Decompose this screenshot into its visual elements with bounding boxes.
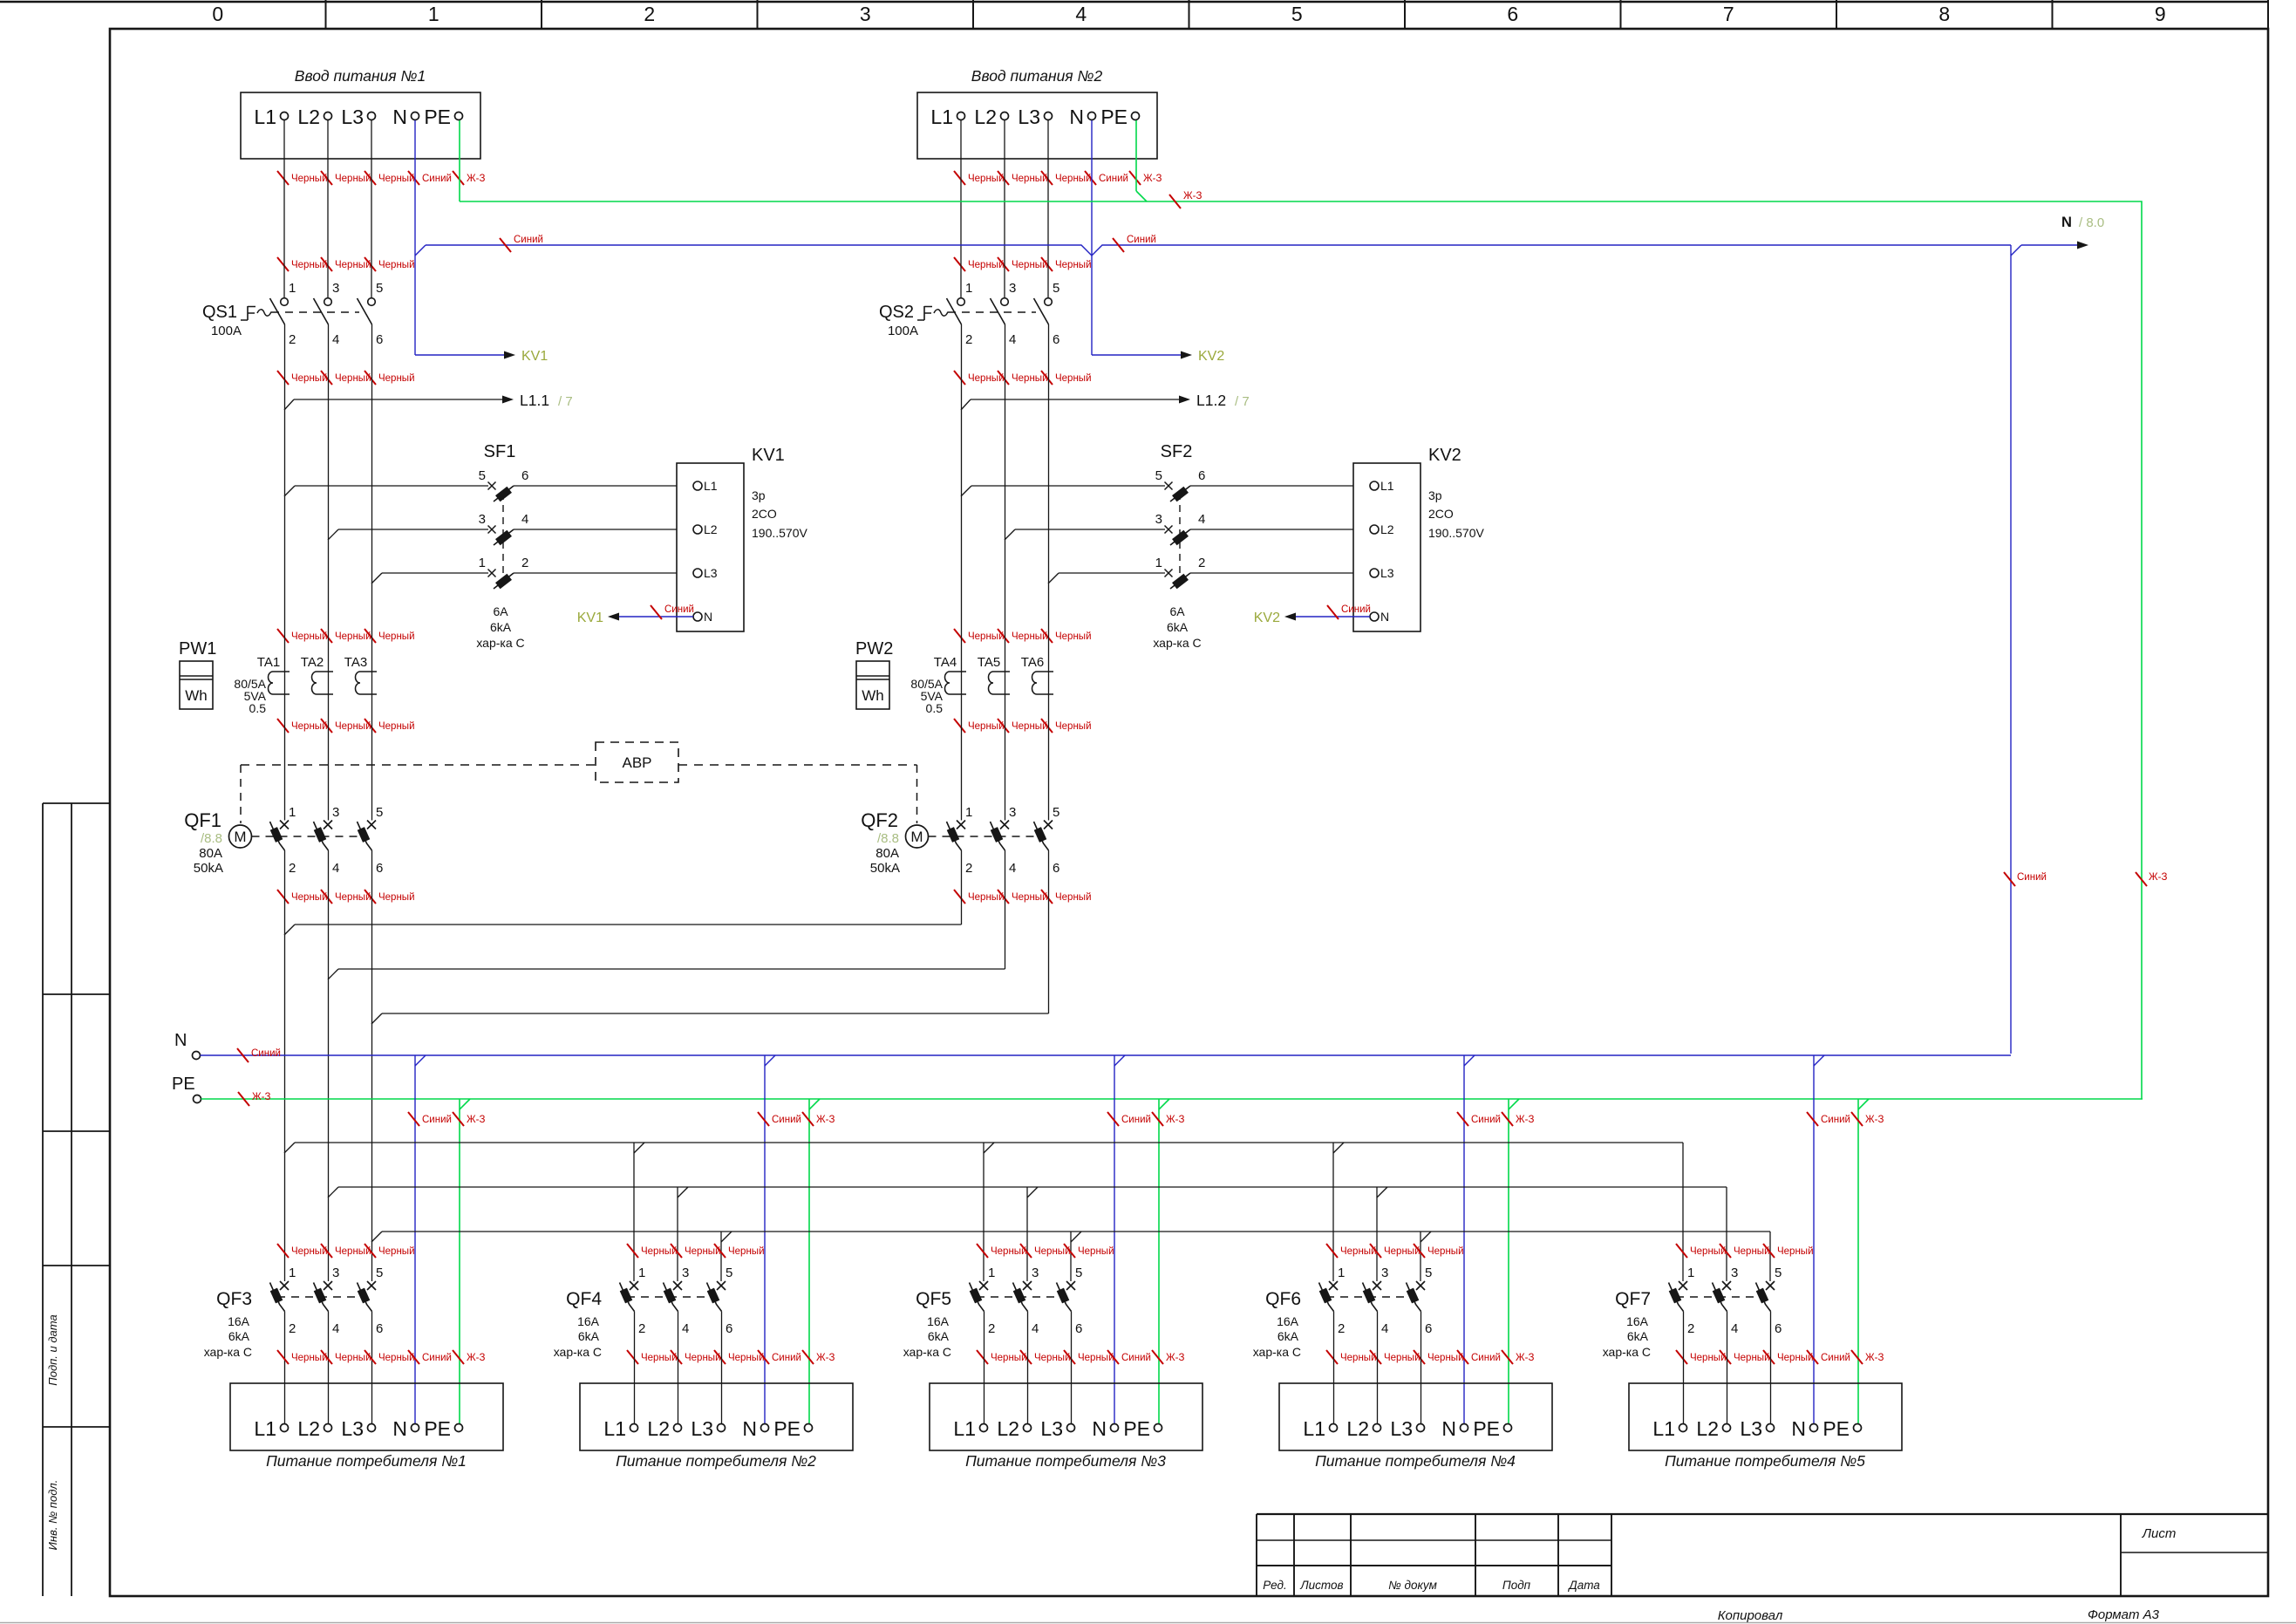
svg-text:L1: L1 bbox=[254, 106, 276, 128]
svg-text:Черный: Черный bbox=[335, 1353, 371, 1363]
svg-text:Инв. № подл.: Инв. № подл. bbox=[46, 1480, 59, 1551]
svg-text:QF7: QF7 bbox=[1615, 1289, 1651, 1309]
svg-text:1: 1 bbox=[988, 1266, 995, 1280]
svg-text:5: 5 bbox=[376, 1266, 383, 1280]
svg-text:6: 6 bbox=[1053, 332, 1059, 347]
svg-text:16А: 16А bbox=[1626, 1314, 1649, 1328]
svg-text:Черный: Черный bbox=[1427, 1246, 1464, 1257]
svg-text:Черный: Черный bbox=[641, 1353, 678, 1363]
svg-text:Черный: Черный bbox=[1055, 721, 1092, 732]
svg-text:Черный: Черный bbox=[1734, 1353, 1770, 1363]
svg-text:4: 4 bbox=[332, 1321, 339, 1336]
svg-text:L2: L2 bbox=[297, 106, 320, 128]
svg-text:Черный: Черный bbox=[1078, 1353, 1114, 1363]
svg-text:1: 1 bbox=[1338, 1266, 1345, 1280]
svg-text:190..570V: 190..570V bbox=[1428, 526, 1484, 540]
svg-text:Синий: Синий bbox=[2017, 872, 2047, 883]
svg-text:4: 4 bbox=[332, 861, 339, 876]
svg-text:16А: 16А bbox=[577, 1314, 600, 1328]
svg-text:6: 6 bbox=[1425, 1321, 1432, 1336]
svg-text:3: 3 bbox=[479, 512, 486, 527]
svg-text:2: 2 bbox=[289, 861, 296, 876]
svg-text:0.5: 0.5 bbox=[249, 701, 267, 715]
svg-text:5: 5 bbox=[1075, 1266, 1082, 1280]
svg-text:N: N bbox=[742, 1417, 757, 1440]
svg-text:2: 2 bbox=[638, 1321, 645, 1336]
svg-text:Синий: Синий bbox=[1821, 1115, 1850, 1125]
svg-text:Синий: Синий bbox=[1099, 174, 1128, 184]
svg-text:5: 5 bbox=[1053, 805, 1059, 820]
svg-text:Синий: Синий bbox=[251, 1048, 281, 1059]
svg-text:6kA: 6kA bbox=[1627, 1329, 1649, 1343]
svg-text:16А: 16А bbox=[927, 1314, 950, 1328]
svg-text:Синий: Синий bbox=[772, 1115, 801, 1125]
svg-text:Подп: Подп bbox=[1502, 1579, 1531, 1592]
svg-text:5: 5 bbox=[1053, 281, 1059, 296]
svg-text:Черный: Черный bbox=[1055, 631, 1092, 642]
svg-text:0.5: 0.5 bbox=[926, 701, 944, 715]
svg-text:KV1: KV1 bbox=[577, 611, 603, 625]
svg-text:L1: L1 bbox=[254, 1417, 276, 1440]
svg-text:Синий: Синий bbox=[422, 174, 452, 184]
svg-text:6: 6 bbox=[1053, 861, 1059, 876]
svg-text:5: 5 bbox=[1291, 3, 1303, 25]
svg-text:Черный: Черный bbox=[1427, 1353, 1464, 1363]
svg-text:Ж-З: Ж-З bbox=[1865, 1115, 1884, 1125]
svg-text:4: 4 bbox=[1198, 512, 1205, 527]
svg-text:L1: L1 bbox=[1380, 479, 1394, 493]
svg-text:Черный: Черный bbox=[378, 721, 415, 732]
svg-text:Питание потребителя №4: Питание потребителя №4 bbox=[1315, 1452, 1516, 1470]
svg-text:6: 6 bbox=[1198, 468, 1205, 483]
svg-text:16А: 16А bbox=[228, 1314, 250, 1328]
svg-text:Синий: Синий bbox=[422, 1353, 452, 1363]
svg-text:Копировал: Копировал bbox=[1718, 1608, 1783, 1623]
svg-text:5: 5 bbox=[1155, 468, 1162, 483]
svg-text:PE: PE bbox=[424, 1417, 451, 1440]
svg-text:PE: PE bbox=[1100, 106, 1128, 128]
svg-text:QF1: QF1 bbox=[184, 809, 221, 831]
svg-text:5: 5 bbox=[479, 468, 486, 483]
svg-text:TA3: TA3 bbox=[344, 655, 367, 670]
svg-text:2CO: 2CO bbox=[1428, 507, 1454, 521]
svg-text:Черный: Черный bbox=[968, 631, 1005, 642]
svg-text:L1: L1 bbox=[603, 1417, 626, 1440]
svg-text:/ 7: / 7 bbox=[1235, 394, 1250, 409]
svg-text:3: 3 bbox=[860, 3, 871, 25]
svg-text:Ж-З: Ж-З bbox=[1166, 1115, 1184, 1125]
svg-text:хар-ка С: хар-ка С bbox=[476, 636, 524, 650]
svg-text:Черный: Черный bbox=[1055, 373, 1092, 384]
svg-text:80А: 80А bbox=[199, 846, 222, 861]
svg-text:1: 1 bbox=[289, 805, 296, 820]
svg-text:3: 3 bbox=[332, 1266, 339, 1280]
svg-text:Черный: Черный bbox=[335, 260, 371, 270]
svg-text:N: N bbox=[174, 1031, 187, 1050]
svg-text:L2: L2 bbox=[1346, 1417, 1369, 1440]
svg-text:PW1: PW1 bbox=[179, 639, 216, 658]
svg-text:2: 2 bbox=[644, 3, 655, 25]
svg-text:Формат А3: Формат А3 bbox=[2088, 1607, 2160, 1622]
svg-text:Черный: Черный bbox=[291, 892, 328, 903]
svg-text:N: N bbox=[392, 1417, 407, 1440]
svg-text:6: 6 bbox=[521, 468, 528, 483]
svg-text:Черный: Черный bbox=[1078, 1246, 1114, 1257]
svg-text:6kA: 6kA bbox=[490, 620, 512, 634]
svg-text:L1: L1 bbox=[704, 479, 718, 493]
svg-text:Ж-З: Ж-З bbox=[816, 1353, 835, 1363]
svg-text:2CO: 2CO bbox=[752, 507, 777, 521]
svg-text:6kA: 6kA bbox=[1167, 620, 1189, 634]
svg-text:3: 3 bbox=[1009, 281, 1016, 296]
svg-text:PW2: PW2 bbox=[855, 639, 893, 658]
svg-text:Черный: Черный bbox=[968, 174, 1005, 184]
svg-text:8: 8 bbox=[1938, 3, 1950, 25]
svg-text:хар-ка С: хар-ка С bbox=[1603, 1345, 1651, 1359]
svg-text:4: 4 bbox=[682, 1321, 689, 1336]
svg-text:50kA: 50kA bbox=[870, 861, 900, 876]
svg-text:M: M bbox=[234, 829, 246, 845]
svg-text:PE: PE bbox=[1123, 1417, 1150, 1440]
svg-text:/ 7: / 7 bbox=[558, 394, 573, 409]
svg-text:N: N bbox=[392, 106, 407, 128]
svg-text:L3: L3 bbox=[1040, 1417, 1063, 1440]
svg-text:Ж-З: Ж-З bbox=[1865, 1353, 1884, 1363]
svg-text:Черный: Черный bbox=[1012, 721, 1048, 732]
svg-text:Черный: Черный bbox=[968, 373, 1005, 384]
svg-text:TA1: TA1 bbox=[257, 655, 280, 670]
svg-text:4: 4 bbox=[1009, 861, 1016, 876]
svg-text:Черный: Черный bbox=[1012, 174, 1048, 184]
svg-text:Черный: Черный bbox=[378, 174, 415, 184]
svg-text:Черный: Черный bbox=[378, 631, 415, 642]
svg-text:SF2: SF2 bbox=[1161, 442, 1193, 461]
svg-text:Ж-З: Ж-З bbox=[1166, 1353, 1184, 1363]
svg-text:L1: L1 bbox=[953, 1417, 976, 1440]
svg-text:6: 6 bbox=[1075, 1321, 1082, 1336]
svg-text:6: 6 bbox=[1775, 1321, 1782, 1336]
svg-text:3: 3 bbox=[332, 281, 339, 296]
svg-text:L3: L3 bbox=[341, 1417, 364, 1440]
svg-text:Черный: Черный bbox=[1055, 174, 1092, 184]
svg-text:Черный: Черный bbox=[991, 1246, 1027, 1257]
svg-text:5: 5 bbox=[1425, 1266, 1432, 1280]
svg-text:№ докум: № докум bbox=[1388, 1579, 1437, 1592]
svg-text:Черный: Черный bbox=[335, 892, 371, 903]
svg-text:L2: L2 bbox=[297, 1417, 320, 1440]
svg-text:QF6: QF6 bbox=[1265, 1289, 1301, 1309]
svg-text:N: N bbox=[1441, 1417, 1456, 1440]
svg-text:PE: PE bbox=[424, 106, 451, 128]
svg-text:2: 2 bbox=[1198, 556, 1205, 570]
svg-text:Черный: Черный bbox=[1777, 1353, 1814, 1363]
svg-text:Черный: Черный bbox=[728, 1353, 765, 1363]
svg-text:/ 8.0: / 8.0 bbox=[2079, 215, 2104, 230]
svg-text:100А: 100А bbox=[888, 324, 918, 338]
svg-text:N: N bbox=[1069, 106, 1084, 128]
svg-text:Ж-З: Ж-З bbox=[467, 1115, 485, 1125]
svg-text:6А: 6А bbox=[493, 604, 508, 618]
svg-text:6: 6 bbox=[376, 332, 383, 347]
svg-text:4: 4 bbox=[1009, 332, 1016, 347]
svg-text:5: 5 bbox=[1775, 1266, 1782, 1280]
svg-text:Ж-З: Ж-З bbox=[252, 1092, 270, 1102]
svg-text:L3: L3 bbox=[691, 1417, 713, 1440]
svg-text:6А: 6А bbox=[1169, 604, 1185, 618]
svg-text:6: 6 bbox=[376, 861, 383, 876]
svg-text:6: 6 bbox=[726, 1321, 732, 1336]
svg-text:PE: PE bbox=[1822, 1417, 1850, 1440]
svg-text:0: 0 bbox=[212, 3, 223, 25]
svg-text:L2: L2 bbox=[974, 106, 997, 128]
svg-text:Черный: Черный bbox=[378, 373, 415, 384]
svg-text:Черный: Черный bbox=[1384, 1246, 1421, 1257]
svg-text:Ж-З: Ж-З bbox=[1183, 191, 1202, 201]
svg-text:1: 1 bbox=[289, 281, 296, 296]
svg-text:Синий: Синий bbox=[772, 1353, 801, 1363]
svg-text:Черный: Черный bbox=[378, 1353, 415, 1363]
svg-text:Подп. и дата: Подп. и дата bbox=[46, 1314, 59, 1385]
svg-text:KV2: KV2 bbox=[1254, 611, 1280, 625]
svg-text:L2: L2 bbox=[647, 1417, 670, 1440]
svg-text:1: 1 bbox=[965, 281, 972, 296]
svg-text:QF5: QF5 bbox=[916, 1289, 951, 1309]
svg-text:Черный: Черный bbox=[1034, 1246, 1071, 1257]
svg-text:5: 5 bbox=[376, 805, 383, 820]
svg-text:N: N bbox=[2061, 215, 2072, 230]
svg-text:Черный: Черный bbox=[335, 174, 371, 184]
svg-text:4: 4 bbox=[1381, 1321, 1388, 1336]
svg-text:Синий: Синий bbox=[664, 604, 694, 615]
svg-text:5: 5 bbox=[376, 281, 383, 296]
svg-text:7: 7 bbox=[1723, 3, 1734, 25]
svg-text:2: 2 bbox=[965, 332, 972, 347]
svg-text:PE: PE bbox=[773, 1417, 801, 1440]
svg-text:QS1: QS1 bbox=[202, 303, 237, 322]
svg-text:3: 3 bbox=[1009, 805, 1016, 820]
svg-text:50kA: 50kA bbox=[194, 861, 223, 876]
svg-text:2: 2 bbox=[988, 1321, 995, 1336]
svg-text:Черный: Черный bbox=[291, 721, 328, 732]
svg-text:L3: L3 bbox=[341, 106, 364, 128]
svg-text:L2: L2 bbox=[1380, 522, 1394, 536]
svg-text:KV1: KV1 bbox=[521, 349, 548, 364]
svg-text:Черный: Черный bbox=[1690, 1246, 1727, 1257]
svg-text:Ввод питания №2: Ввод питания №2 bbox=[971, 67, 1103, 85]
svg-text:N: N bbox=[704, 610, 712, 624]
svg-text:Черный: Черный bbox=[335, 1246, 371, 1257]
svg-text:Ж-З: Ж-З bbox=[467, 1353, 485, 1363]
svg-text:Черный: Черный bbox=[641, 1246, 678, 1257]
svg-text:1: 1 bbox=[965, 805, 972, 820]
svg-text:KV2: KV2 bbox=[1198, 349, 1224, 364]
svg-text:Синий: Синий bbox=[1471, 1115, 1501, 1125]
svg-text:хар-ка С: хар-ка С bbox=[1153, 636, 1201, 650]
svg-text:Черный: Черный bbox=[1340, 1246, 1377, 1257]
svg-text:3: 3 bbox=[1155, 512, 1162, 527]
svg-text:Черный: Черный bbox=[378, 1246, 415, 1257]
svg-text:Черный: Черный bbox=[291, 373, 328, 384]
svg-text:L3: L3 bbox=[704, 566, 718, 580]
svg-text:16А: 16А bbox=[1277, 1314, 1299, 1328]
svg-text:TA2: TA2 bbox=[301, 655, 324, 670]
svg-text:2: 2 bbox=[1338, 1321, 1345, 1336]
svg-text:Черный: Черный bbox=[991, 1353, 1027, 1363]
svg-text:3p: 3p bbox=[752, 488, 766, 502]
svg-text:Синий: Синий bbox=[1821, 1353, 1850, 1363]
svg-text:Черный: Черный bbox=[685, 1246, 721, 1257]
svg-text:L1: L1 bbox=[1652, 1417, 1675, 1440]
svg-text:Черный: Черный bbox=[1034, 1353, 1071, 1363]
svg-text:Дата: Дата bbox=[1567, 1579, 1600, 1592]
svg-text:6kA: 6kA bbox=[1277, 1329, 1299, 1343]
svg-text:Черный: Черный bbox=[291, 260, 328, 270]
svg-text:Черный: Черный bbox=[968, 892, 1005, 903]
svg-text:Ввод питания №1: Ввод питания №1 bbox=[295, 67, 426, 85]
svg-text:3: 3 bbox=[682, 1266, 689, 1280]
svg-text:6kA: 6kA bbox=[928, 1329, 950, 1343]
svg-text:1: 1 bbox=[1155, 556, 1162, 570]
svg-text:Черный: Черный bbox=[335, 373, 371, 384]
svg-text:2: 2 bbox=[965, 861, 972, 876]
svg-text:Ж-З: Ж-З bbox=[1516, 1115, 1534, 1125]
svg-text:Черный: Черный bbox=[291, 174, 328, 184]
svg-text:Синий: Синий bbox=[1471, 1353, 1501, 1363]
svg-text:Черный: Черный bbox=[968, 260, 1005, 270]
svg-text:4: 4 bbox=[1032, 1321, 1039, 1336]
svg-text:4: 4 bbox=[332, 332, 339, 347]
svg-text:Черный: Черный bbox=[1012, 892, 1048, 903]
svg-text:L3: L3 bbox=[1018, 106, 1040, 128]
svg-text:4: 4 bbox=[521, 512, 528, 527]
svg-text:4: 4 bbox=[1731, 1321, 1738, 1336]
svg-text:хар-ка С: хар-ка С bbox=[204, 1345, 252, 1359]
svg-text:Черный: Черный bbox=[1055, 260, 1092, 270]
svg-text:1: 1 bbox=[1687, 1266, 1694, 1280]
svg-text:Питание потребителя №3: Питание потребителя №3 bbox=[965, 1452, 1166, 1470]
svg-text:Ж-З: Ж-З bbox=[1516, 1353, 1534, 1363]
svg-text:АВР: АВР bbox=[622, 754, 651, 771]
svg-text:5: 5 bbox=[726, 1266, 732, 1280]
svg-text:Черный: Черный bbox=[291, 1246, 328, 1257]
svg-text:QF2: QF2 bbox=[861, 809, 898, 831]
svg-text:PE: PE bbox=[172, 1075, 195, 1094]
svg-text:6kA: 6kA bbox=[578, 1329, 600, 1343]
svg-text:L3: L3 bbox=[1740, 1417, 1762, 1440]
svg-text:L2: L2 bbox=[704, 522, 718, 536]
svg-text:Черный: Черный bbox=[1777, 1246, 1814, 1257]
svg-text:Листов: Листов bbox=[1299, 1579, 1343, 1592]
svg-text:Черный: Черный bbox=[378, 892, 415, 903]
svg-text:Ж-З: Ж-З bbox=[2149, 872, 2167, 883]
svg-text:TA6: TA6 bbox=[1021, 655, 1044, 670]
svg-text:1: 1 bbox=[428, 3, 439, 25]
svg-text:4: 4 bbox=[1075, 3, 1087, 25]
svg-text:Синий: Синий bbox=[422, 1115, 452, 1125]
svg-text:Синий: Синий bbox=[1341, 604, 1371, 615]
svg-text:Черный: Черный bbox=[1340, 1353, 1377, 1363]
svg-text:TA4: TA4 bbox=[934, 655, 957, 670]
svg-text:L1.1: L1.1 bbox=[520, 392, 549, 409]
svg-text:Черный: Черный bbox=[378, 260, 415, 270]
svg-text:/8.8: /8.8 bbox=[201, 831, 222, 846]
svg-text:N: N bbox=[1092, 1417, 1107, 1440]
svg-text:Черный: Черный bbox=[1734, 1246, 1770, 1257]
svg-text:QF3: QF3 bbox=[216, 1289, 252, 1309]
svg-text:SF1: SF1 bbox=[484, 442, 516, 461]
svg-text:3: 3 bbox=[1731, 1266, 1738, 1280]
svg-text:Черный: Черный bbox=[685, 1353, 721, 1363]
svg-text:Черный: Черный bbox=[1384, 1353, 1421, 1363]
svg-text:80А: 80А bbox=[875, 846, 899, 861]
svg-text:N: N bbox=[1380, 610, 1389, 624]
svg-text:Черный: Черный bbox=[291, 1353, 328, 1363]
svg-text:3p: 3p bbox=[1428, 488, 1442, 502]
svg-text:6kA: 6kA bbox=[228, 1329, 250, 1343]
svg-text:1: 1 bbox=[479, 556, 486, 570]
svg-text:KV1: KV1 bbox=[752, 446, 785, 465]
svg-text:хар-ка С: хар-ка С bbox=[903, 1345, 951, 1359]
svg-text:Синий: Синий bbox=[1127, 235, 1156, 245]
svg-text:L1.2: L1.2 bbox=[1196, 392, 1226, 409]
svg-text:M: M bbox=[910, 829, 923, 845]
svg-text:N: N bbox=[1791, 1417, 1806, 1440]
svg-text:Черный: Черный bbox=[728, 1246, 765, 1257]
svg-text:1: 1 bbox=[289, 1266, 296, 1280]
svg-text:Синий: Синий bbox=[1121, 1115, 1151, 1125]
svg-text:2: 2 bbox=[1687, 1321, 1694, 1336]
svg-text:Питание потребителя №2: Питание потребителя №2 bbox=[616, 1452, 816, 1470]
svg-text:Черный: Черный bbox=[335, 721, 371, 732]
svg-text:2: 2 bbox=[289, 1321, 296, 1336]
svg-text:KV2: KV2 bbox=[1428, 446, 1461, 465]
svg-text:Черный: Черный bbox=[1012, 373, 1048, 384]
svg-text:/8.8: /8.8 bbox=[877, 831, 899, 846]
svg-text:Питание потребителя №5: Питание потребителя №5 bbox=[1665, 1452, 1865, 1470]
svg-text:Питание потребителя №1: Питание потребителя №1 bbox=[266, 1452, 467, 1470]
svg-text:QS2: QS2 bbox=[879, 303, 914, 322]
svg-text:Wh: Wh bbox=[185, 687, 208, 704]
svg-text:Черный: Черный bbox=[335, 631, 371, 642]
svg-text:L2: L2 bbox=[997, 1417, 1019, 1440]
svg-text:1: 1 bbox=[638, 1266, 645, 1280]
svg-text:TA5: TA5 bbox=[978, 655, 1000, 670]
svg-text:6: 6 bbox=[376, 1321, 383, 1336]
svg-text:100А: 100А bbox=[211, 324, 242, 338]
svg-text:3: 3 bbox=[1032, 1266, 1039, 1280]
svg-text:Синий: Синий bbox=[1121, 1353, 1151, 1363]
svg-text:3: 3 bbox=[332, 805, 339, 820]
svg-text:Черный: Черный bbox=[1690, 1353, 1727, 1363]
svg-text:L3: L3 bbox=[1380, 566, 1394, 580]
svg-text:PE: PE bbox=[1473, 1417, 1500, 1440]
svg-text:QF4: QF4 bbox=[566, 1289, 602, 1309]
svg-text:хар-ка С: хар-ка С bbox=[554, 1345, 602, 1359]
svg-text:190..570V: 190..570V bbox=[752, 526, 807, 540]
svg-text:L3: L3 bbox=[1390, 1417, 1413, 1440]
svg-text:Черный: Черный bbox=[1012, 631, 1048, 642]
svg-text:Ж-З: Ж-З bbox=[1143, 174, 1162, 184]
svg-text:Ж-З: Ж-З bbox=[467, 174, 485, 184]
svg-text:2: 2 bbox=[521, 556, 528, 570]
svg-text:Черный: Черный bbox=[291, 631, 328, 642]
svg-text:Ред.: Ред. bbox=[1263, 1579, 1286, 1592]
svg-text:L1: L1 bbox=[930, 106, 953, 128]
svg-text:Лист: Лист bbox=[2142, 1526, 2177, 1541]
svg-text:Синий: Синий bbox=[514, 235, 543, 245]
svg-text:6: 6 bbox=[1507, 3, 1518, 25]
svg-text:3: 3 bbox=[1381, 1266, 1388, 1280]
